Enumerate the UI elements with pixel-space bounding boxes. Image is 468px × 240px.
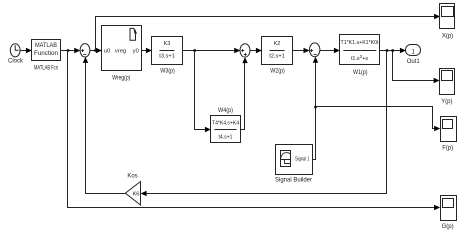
junction on sum3 bottom wire (314, 106, 316, 108)
sum junction sum3 (310, 43, 320, 57)
gain Kos K6 (125, 182, 140, 206)
wire MATLAB Fcn to sum1 (61, 48, 81, 53)
block W2 transfer function K2 (262, 37, 293, 65)
arrow into scope G (434, 205, 440, 210)
svg-text:t4.s+1: t4.s+1 (219, 135, 233, 141)
svg-text:Function: Function (34, 51, 58, 57)
junction at Wreg input (94, 49, 96, 51)
block Signal Builder (276, 145, 313, 175)
svg-text:t3.s+1: t3.s+1 (159, 54, 175, 60)
wire branch to scope Y (393, 51, 440, 84)
svg-text:X(p): X(p) (442, 34, 453, 40)
svg-text:Y(p): Y(p) (441, 99, 452, 105)
svg-text:Kos: Kos (127, 174, 137, 180)
wire W3 to sum2 (183, 48, 241, 53)
junction at MATLAB Fcn output (67, 49, 69, 51)
svg-text:vreg: vreg (115, 49, 126, 55)
svg-text:Wreg(p): Wreg(p) (112, 76, 130, 82)
junction scope Y tap (392, 49, 394, 51)
wire Signal Builder to sum3 bottom input (313, 62, 316, 160)
arrow into scope X (434, 14, 440, 19)
wire Wreg to W3 (142, 48, 152, 53)
wire branch to scope F (316, 107, 441, 132)
svg-text:W3(p): W3(p) (160, 69, 175, 75)
wire W4 output to sum2 bottom input (241, 62, 245, 130)
wire branch down to gain Kos (141, 51, 387, 197)
wire sum3 to W1 (320, 48, 340, 53)
svg-text:MATLAB Fcn: MATLAB Fcn (34, 66, 58, 72)
wire sum2 to W2 (250, 48, 262, 53)
svg-text:Signal 1: Signal 1 (295, 156, 310, 162)
svg-text:u0: u0 (104, 49, 110, 55)
arrow into sum1 bottom (83, 57, 88, 63)
wire branch up to scope X (96, 17, 430, 51)
arrow into sum3 bottom (313, 57, 318, 63)
svg-text:t1.s2+s: t1.s2+s (351, 54, 368, 62)
svg-text:t2.s+1: t2.s+1 (269, 54, 285, 60)
wire gain Kos output to sum1 bottom input (86, 62, 126, 194)
wire branch down into W4 (195, 51, 211, 133)
scope Y(p) (440, 69, 455, 95)
svg-text:W4(p): W4(p) (218, 108, 233, 114)
junction Kos tap (386, 49, 388, 51)
svg-text:MATLAB: MATLAB (35, 43, 57, 49)
svg-text:Signal Builder: Signal Builder (275, 177, 312, 183)
sum junction sum2 (240, 44, 250, 57)
wire Clock to MATLAB Fcn (20, 48, 32, 53)
svg-text:y0: y0 (133, 49, 139, 55)
wire branch down to scope G (68, 51, 430, 208)
svg-text:Out1: Out1 (407, 59, 421, 65)
svg-text:G(p): G(p) (442, 224, 454, 230)
block W4 transfer function (211, 116, 241, 143)
junction at W3 output (194, 49, 196, 51)
arrow into sum2 bottom (242, 57, 247, 63)
document icon in Wreg (130, 28, 137, 40)
block MATLAB Fcn (32, 40, 61, 61)
svg-text:K3: K3 (164, 41, 171, 47)
scope F(p) (441, 117, 457, 142)
scope G(p) (441, 196, 457, 221)
svg-text:1: 1 (412, 49, 416, 55)
svg-text:W1(p): W1(p) (353, 70, 368, 76)
wire sum1 to subsystem Wreg (90, 48, 102, 53)
svg-text:Clock: Clock (8, 59, 24, 65)
wire W1 to Out1 (380, 48, 406, 53)
subsystem Wreg (102, 26, 142, 71)
block W3 transfer function K3 (152, 37, 183, 65)
clock Clock (10, 44, 20, 57)
sum junction sum1 (80, 44, 90, 57)
svg-text:T1*K1.s+K1*K0t: T1*K1.s+K1*K0t (341, 40, 379, 46)
wire W2 to sum3 (293, 48, 310, 53)
svg-text:K6: K6 (133, 191, 140, 197)
svg-text:T4*K4.s+K4: T4*K4.s+K4 (212, 121, 239, 127)
svg-text:F(p): F(p) (442, 146, 453, 152)
svg-text:K2: K2 (274, 41, 281, 47)
scope X(p) (440, 4, 455, 29)
svg-text:W2(p): W2(p) (270, 69, 285, 75)
outport Out1 (406, 45, 421, 56)
block W1 transfer function (340, 35, 380, 65)
